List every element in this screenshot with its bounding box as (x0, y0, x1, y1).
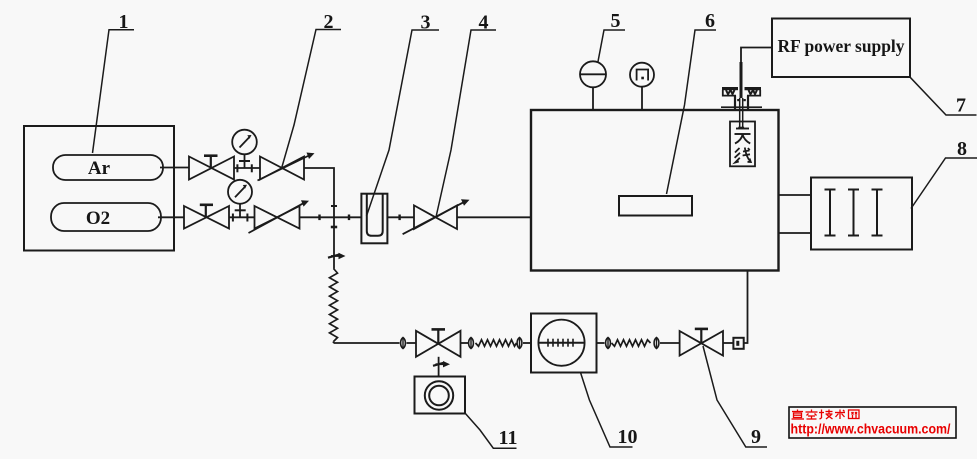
molecular pump (component 10) (531, 314, 597, 373)
vacuum chamber (531, 110, 779, 271)
svg-text:RF power supply: RF power supply (778, 36, 905, 56)
Ar gas cylinder (53, 155, 163, 180)
joint tick (348, 215, 350, 221)
wire RF supply to antenna rod (741, 48, 772, 63)
antenna box label 天线 (730, 122, 755, 167)
gate valve with T handle (component 9) (680, 329, 723, 356)
flexible bellows (horizontal) (476, 340, 517, 346)
svg-text:O2: O2 (86, 208, 110, 229)
roughing valve with T handle (above component 11) (416, 329, 461, 356)
pipe flange joint (401, 338, 406, 349)
needle valve (component 4) (403, 199, 470, 234)
O2 regulating valve (249, 200, 310, 233)
wire Ar valve to gauge tee (234, 167, 260, 169)
Ar cylinder valve with T handle (189, 156, 234, 180)
flexible bellows (vertical) (330, 269, 338, 342)
wire valve to fitting (723, 342, 733, 344)
label 9 (703, 346, 767, 448)
node: gas line junction (331, 206, 337, 227)
watermark CJK 真空技术网 (792, 410, 860, 420)
matching box (component 8) (811, 178, 912, 250)
flexible bellows (horizontal) (612, 340, 651, 346)
gas cabinet box (component 1) (24, 126, 174, 251)
O2 cylinder valve with T handle (184, 205, 229, 229)
pipe flange joint (469, 338, 474, 349)
wire valve to chamber (457, 216, 531, 218)
svg-text:11: 11 (499, 427, 518, 449)
pipe flange joint (654, 338, 659, 349)
rotary pump (component 11) (415, 377, 466, 414)
svg-text:8: 8 (957, 138, 967, 160)
wire O2 valve to gauge tee (229, 216, 255, 218)
exhaust pipe from chamber bottom (744, 271, 748, 344)
label 1 (93, 11, 135, 153)
glyph 天 (735, 129, 751, 144)
label 3 (367, 12, 440, 217)
watermark box (789, 407, 956, 438)
label 10 (581, 373, 638, 449)
Ar regulating valve (component 2) (258, 153, 315, 181)
label 11 (465, 413, 518, 450)
label 4 (436, 12, 496, 218)
pressure gauge on O2 line (228, 180, 252, 222)
ionization gauge (component 5) (580, 61, 606, 110)
wire O2 regulator to junction (300, 216, 335, 218)
wire pump to flange (597, 342, 605, 344)
svg-text:6: 6 (705, 10, 715, 32)
wire junction to flow meter (334, 216, 361, 218)
wire Ar regulator to corner (304, 168, 334, 217)
label 6 (667, 10, 717, 194)
svg-text:7: 7 (956, 95, 966, 117)
thermocouple gauge (630, 63, 654, 110)
svg-text:10: 10 (618, 426, 638, 448)
svg-text:Ar: Ar (88, 158, 111, 179)
wire Ar outlet (160, 167, 189, 169)
vent branch with arrow (328, 217, 346, 268)
substrate holder (component 6) (619, 196, 692, 216)
glyph 线 (735, 148, 751, 163)
svg-text:9: 9 (751, 426, 761, 448)
wire to molecular pump (523, 342, 531, 344)
electrode plates inside box 8 (825, 190, 883, 236)
pipe fitting block (733, 338, 743, 349)
svg-text:http://www.chvacuum.com/: http://www.chvacuum.com/ (791, 422, 951, 437)
pipe flange joint (517, 338, 522, 349)
joint tick (398, 215, 400, 221)
joint tick on main line (318, 215, 320, 221)
watermark URL text (791, 422, 951, 437)
wire valve to flange (461, 342, 469, 344)
wire flange to valve (407, 342, 417, 344)
label 8 (911, 138, 977, 209)
O2 gas cylinder (51, 203, 161, 231)
insulated feedthrough flange (721, 89, 762, 110)
antenna feedthrough rod (738, 62, 744, 128)
wire flange to gate valve (660, 342, 680, 344)
matching box ports (779, 195, 812, 233)
label 5 (598, 10, 625, 62)
label 2 (282, 11, 342, 169)
wire meter to needle valve (387, 216, 414, 218)
label 7 (910, 77, 977, 117)
pressure gauge on Ar line (232, 130, 257, 173)
branch down to rotary pump with arrow (433, 357, 450, 377)
pipe flange joint (606, 338, 611, 349)
RF power supply box (component 7) (772, 19, 910, 78)
elbow wire from bellows to pump line (334, 342, 400, 344)
wire O2 outlet (158, 216, 184, 218)
flow meter (component 3) (361, 194, 387, 244)
svg-text:5: 5 (611, 10, 621, 32)
